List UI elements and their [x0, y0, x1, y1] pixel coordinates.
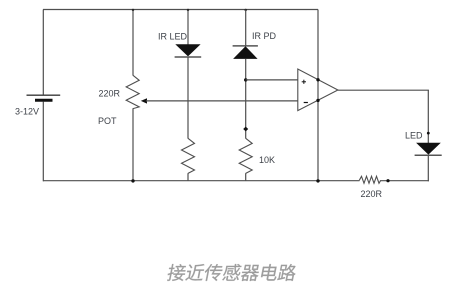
wire op-amp supply line: [317, 10, 319, 182]
battery B1: [27, 95, 61, 100]
junction dot pot column at bottom rail: [131, 179, 134, 182]
wire IR LED cathode to resistor: [187, 57, 189, 139]
wire resistor 10K to bottom rail: [245, 173, 247, 181]
op-amp non-inverting input +: [302, 80, 306, 84]
resistor 220R (LED series): [359, 176, 380, 183]
svg-text:220R: 220R: [361, 189, 383, 199]
svg-text:POT: POT: [98, 116, 117, 126]
wire pot wiper to op-amp inverting input: [146, 100, 298, 102]
photodiode IR PD: [233, 46, 258, 59]
wire IR LED anode lead: [187, 10, 189, 45]
wire IR PD junction to op-amp non-inverting input: [246, 79, 298, 81]
wire battery positive lead: [42, 10, 44, 96]
wire pot column lower: [132, 108, 134, 181]
junction dot supply at op-amp bottom edge: [316, 99, 319, 102]
diode LED: [415, 143, 442, 155]
label 10K: [259, 155, 275, 165]
op-amp U1: [298, 69, 338, 111]
pot wiper arrowhead: [141, 98, 147, 103]
title 接近传感器电路: [166, 264, 297, 281]
svg-text:3-12V: 3-12V: [15, 106, 39, 116]
potentiometer 220R POT: [126, 75, 139, 108]
label 3-12V: [15, 106, 39, 116]
label IR PD: [252, 31, 277, 41]
label IR LED: [158, 31, 188, 41]
wire LED to resistor 220R: [380, 180, 429, 182]
op-amp inverting input -: [304, 102, 308, 104]
junction dot on IR PD column (node): [243, 127, 248, 132]
label POT: [98, 116, 117, 126]
diode IR LED: [175, 44, 202, 57]
junction dot supply at op-amp top edge: [316, 78, 319, 81]
svg-text:220R: 220R: [99, 88, 121, 98]
wire resistor to bottom rail: [187, 173, 189, 181]
svg-text:10K: 10K: [259, 155, 275, 165]
wire op-amp output: [338, 89, 429, 91]
junction dot pot column top: [132, 9, 134, 11]
wire bottom rail: [43, 180, 360, 182]
junction dot IR LED column top: [187, 9, 189, 11]
svg-text:IR LED: IR LED: [158, 31, 188, 41]
label 220R (pot): [99, 88, 121, 98]
wire IR PD anode lead: [245, 59, 247, 139]
svg-text:IR PD: IR PD: [252, 31, 277, 41]
svg-text:LED: LED: [405, 131, 423, 141]
wire output down to LED: [427, 90, 429, 143]
wire pot column upper: [132, 10, 134, 76]
junction dot IR PD column top: [245, 9, 247, 11]
wire top rail: [43, 9, 318, 11]
wire IR PD cathode lead: [245, 10, 247, 47]
resistor (IR LED series): [182, 138, 195, 173]
wire LED cathode down: [427, 155, 429, 181]
resistor 10K: [239, 138, 252, 173]
junction dot LED anode wire: [427, 132, 430, 135]
label LED: [405, 131, 423, 141]
junction dot right of resistor 220R: [386, 179, 389, 182]
junction dot IR PD to op-amp wire: [244, 78, 247, 81]
wire battery negative lead: [42, 102, 44, 182]
junction dot supply line at bottom rail: [316, 179, 319, 182]
label 220R (LED): [361, 189, 383, 199]
